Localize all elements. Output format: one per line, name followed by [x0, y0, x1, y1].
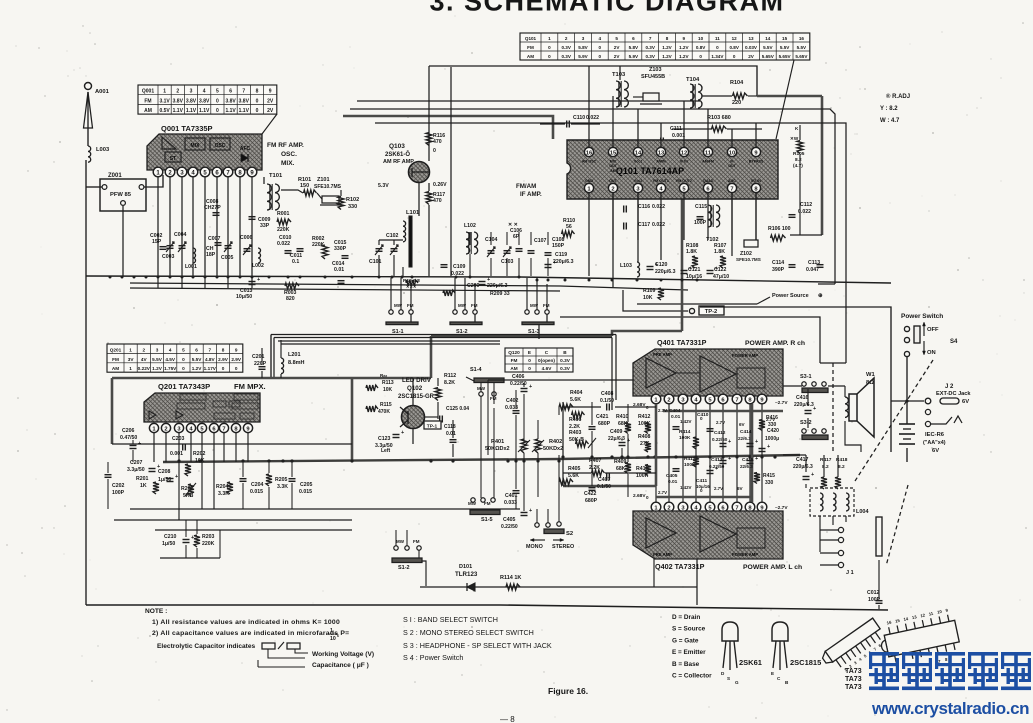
table Q201 voltages — [107, 344, 243, 372]
wires speaker loop — [845, 421, 861, 452]
svg-text:+: + — [728, 439, 731, 445]
svg-text:ON: ON — [927, 350, 936, 356]
svg-text:1.2V: 1.2V — [679, 45, 689, 50]
svg-text:220K: 220K — [202, 541, 215, 547]
svg-text:www.crystalradio.cn: www.crystalradio.cn — [871, 699, 1029, 718]
svg-text:1.8K: 1.8K — [686, 249, 697, 255]
svg-text:T104: T104 — [686, 77, 700, 83]
svg-text:Q001: Q001 — [142, 89, 154, 95]
resistor R209 33 — [443, 290, 455, 296]
svg-text:1.2V: 1.2V — [192, 366, 203, 371]
svg-text:C210: C210 — [164, 534, 177, 540]
svg-text:1.2V: 1.2V — [152, 366, 163, 371]
svg-text:R405: R405 — [568, 466, 581, 472]
headphone jack J1 — [838, 527, 843, 532]
svg-text:220μ/6.3: 220μ/6.3 — [794, 402, 814, 408]
svg-text:T103: T103 — [612, 72, 626, 78]
svg-text:2: 2 — [667, 398, 670, 404]
svg-text:S 3 : HEADPHONE - SP SELECT: S 3 : HEADPHONE - SP SELECT WITH JACK — [403, 641, 552, 650]
svg-text:R414: R414 — [679, 429, 691, 435]
svg-text:D101: D101 — [459, 564, 472, 570]
wire third mid bus — [130, 288, 560, 291]
svg-text:J 1: J 1 — [846, 570, 854, 576]
wire AF section border outer — [271, 334, 616, 336]
svg-text:R001: R001 — [277, 211, 290, 217]
svg-text:470: 470 — [433, 139, 442, 145]
wire table pointer Q001 — [262, 114, 277, 134]
svg-text:Q120: Q120 — [508, 350, 520, 355]
wires amp pin columns — [655, 404, 657, 502]
svg-text:0.022: 0.022 — [451, 271, 464, 277]
wire C210 bottom — [160, 557, 220, 559]
svg-text:8.2K: 8.2K — [444, 380, 455, 386]
svg-text:R102: R102 — [346, 197, 359, 203]
svg-text:Q101: Q101 — [525, 36, 537, 41]
paper speckle noise — [335, 110, 337, 112]
svg-text:✕ ✕: ✕ ✕ — [508, 222, 518, 228]
svg-text:Z101: Z101 — [317, 177, 330, 183]
svg-text:220K: 220K — [277, 227, 290, 233]
svg-text:10: 10 — [698, 36, 704, 41]
svg-text:+: + — [529, 384, 532, 390]
resistor R119 6.8 — [406, 280, 418, 286]
wire power source pointer — [757, 297, 770, 304]
svg-text:OSC: OSC — [215, 143, 226, 149]
svg-text:0: 0 — [256, 108, 259, 114]
svg-text:0.3V: 0.3V — [645, 54, 655, 59]
svg-text:0: 0 — [235, 366, 238, 371]
svg-text:7: 7 — [735, 398, 738, 404]
svg-text:0.015: 0.015 — [250, 489, 263, 495]
svg-text:4V: 4V — [141, 357, 148, 362]
svg-text:FM: FM — [511, 358, 518, 363]
svg-text:0.01: 0.01 — [668, 479, 678, 485]
svg-text:AM: AM — [112, 366, 119, 371]
svg-text:2SK61-Ō: 2SK61-Ō — [385, 151, 410, 158]
svg-text:IF AMP.: IF AMP. — [520, 191, 542, 198]
svg-text:R202: R202 — [193, 451, 206, 457]
svg-text:MIX: MIX — [610, 160, 617, 164]
svg-text:5.3V: 5.3V — [378, 183, 389, 189]
svg-text:C = Collector: C = Collector — [672, 673, 712, 680]
svg-text:C003: C003 — [162, 254, 175, 260]
svg-text:7: 7 — [649, 36, 652, 41]
svg-text:0.22/50: 0.22/50 — [712, 437, 728, 442]
svg-text:5.5V: 5.5V — [192, 357, 203, 362]
svg-text:14: 14 — [765, 36, 771, 41]
wire y530 segment — [155, 529, 352, 531]
svg-text:3.8V: 3.8V — [173, 98, 184, 104]
svg-text:1.42V: 1.42V — [680, 485, 692, 490]
svg-text:QUAD: QUAD — [703, 179, 714, 183]
svg-text:L002: L002 — [252, 263, 264, 269]
svg-text:TA73: TA73 — [845, 668, 862, 675]
wire main AF bus — [163, 455, 800, 462]
wire main mid bus — [86, 276, 891, 283]
svg-text:0.5V: 0.5V — [159, 108, 170, 114]
svg-text:T101: T101 — [269, 173, 283, 179]
svg-text:C416: C416 — [796, 395, 809, 401]
svg-text:C404: C404 — [669, 408, 681, 414]
svg-text:+: + — [767, 444, 770, 450]
svg-text:5.6K: 5.6K — [570, 397, 581, 403]
wire Z101 row — [281, 190, 303, 193]
svg-text:+: + — [755, 439, 758, 445]
elco C120 220u/6.3 — [647, 266, 654, 268]
svg-text:C110: C110 — [573, 115, 585, 121]
svg-text:0.22V: 0.22V — [138, 366, 151, 371]
svg-text:220μ/6.3: 220μ/6.3 — [655, 269, 676, 275]
svg-text:33P: 33P — [260, 223, 270, 229]
svg-text:S1-4: S1-4 — [470, 367, 483, 373]
svg-text:0: 0 — [182, 366, 185, 371]
svg-text:S1-3: S1-3 — [528, 329, 540, 335]
svg-text:C004: C004 — [174, 232, 187, 238]
svg-text:1: 1 — [330, 628, 333, 634]
wire table pointer Q101 — [776, 60, 794, 139]
svg-text:330: 330 — [765, 480, 774, 486]
svg-text:16: 16 — [799, 36, 805, 41]
svg-text:FM/AM: FM/AM — [516, 183, 536, 190]
svg-text:470K: 470K — [378, 409, 390, 415]
wire S1-4 pointer — [466, 377, 474, 381]
svg-text:+: + — [401, 430, 404, 436]
svg-text:0.3V: 0.3V — [560, 358, 571, 363]
svg-text:AM: AM — [144, 108, 152, 114]
svg-text:5.9V: 5.9V — [629, 54, 639, 59]
svg-text:SFU455B: SFU455B — [641, 74, 665, 80]
svg-text:1.75V: 1.75V — [164, 366, 177, 371]
svg-text:R205: R205 — [275, 477, 288, 483]
wire thick L to band switch — [612, 331, 682, 336]
svg-text:0.3V: 0.3V — [561, 45, 571, 50]
svg-text:C119: C119 — [555, 252, 567, 258]
svg-text:5.5V: 5.5V — [780, 45, 790, 50]
svg-text:+: + — [811, 472, 814, 478]
wire thick IF input bus — [343, 116, 553, 139]
svg-text:PFW 85: PFW 85 — [110, 192, 132, 198]
wires under Q101 — [612, 193, 614, 287]
svg-text:2V: 2V — [267, 98, 274, 104]
wire Z001 right — [144, 175, 163, 187]
capacitor C116 0.022 — [623, 206, 625, 213]
svg-text:C007: C007 — [208, 236, 221, 242]
svg-text:1.1V: 1.1V — [225, 108, 236, 114]
svg-text:2.7V: 2.7V — [714, 486, 723, 491]
svg-text:2: 2 — [565, 36, 568, 41]
svg-text:C201: C201 — [252, 354, 265, 360]
svg-text:Q201: Q201 — [110, 347, 122, 352]
svg-text:2V: 2V — [267, 108, 274, 114]
svg-text:C112: C112 — [800, 202, 812, 208]
svg-text:0.8V: 0.8V — [696, 45, 706, 50]
wires left amp horizontals — [488, 379, 633, 381]
svg-text:15: 15 — [610, 151, 617, 157]
thick amp rails — [655, 404, 658, 486]
svg-text:0: 0 — [646, 495, 649, 500]
svg-text:AGC: AGC — [728, 179, 736, 183]
svg-text:C109: C109 — [453, 264, 466, 270]
svg-text:5: 5 — [615, 36, 618, 41]
svg-text:0: 0 — [528, 366, 531, 371]
wire TP-2 line — [623, 290, 688, 311]
svg-text:+: + — [257, 277, 260, 283]
svg-text:Q102: Q102 — [407, 385, 423, 392]
svg-text:C405: C405 — [503, 517, 516, 523]
svg-text:2: 2 — [142, 347, 145, 352]
svg-text:1: 1 — [163, 89, 166, 95]
svg-text:3.8V: 3.8V — [239, 98, 250, 104]
svg-text:4: 4 — [169, 347, 172, 352]
svg-text:7: 7 — [222, 427, 225, 433]
svg-text:1000μ: 1000μ — [765, 436, 779, 442]
svg-text:C207: C207 — [130, 460, 143, 466]
svg-text:10: 10 — [330, 636, 336, 642]
svg-text:S = Source: S = Source — [672, 626, 706, 633]
svg-text:11: 11 — [705, 151, 712, 157]
svg-text:GND: GND — [585, 179, 593, 183]
dashed chassis diagonals — [855, 360, 933, 481]
svg-text:MIX: MIX — [191, 143, 201, 149]
wire S1-2 to diode line — [422, 561, 426, 586]
svg-text:13: 13 — [748, 36, 754, 41]
svg-text:6V: 6V — [962, 399, 969, 405]
svg-text:C209: C209 — [467, 283, 480, 289]
svg-text:10μ/16: 10μ/16 — [696, 484, 710, 489]
svg-text:Y : 8.2: Y : 8.2 — [880, 106, 898, 112]
svg-text:680P: 680P — [598, 421, 611, 427]
svg-text:1.42V: 1.42V — [680, 419, 692, 424]
elco C121 10u/16 — [681, 270, 688, 272]
svg-text:6V: 6V — [739, 422, 746, 427]
svg-text:E: E — [771, 671, 774, 676]
wires Q001 pins down — [157, 177, 159, 276]
svg-text:10: 10 — [729, 151, 735, 157]
svg-text:R106 100: R106 100 — [768, 226, 791, 232]
svg-text:0: 0 — [733, 54, 736, 59]
svg-text:8: 8 — [256, 89, 259, 95]
svg-text:+: + — [755, 456, 758, 462]
svg-text:C116: C116 — [638, 204, 650, 210]
svg-text:9: 9 — [683, 36, 686, 41]
svg-text:0.015: 0.015 — [299, 489, 312, 495]
svg-text:5.65V: 5.65V — [779, 54, 792, 59]
svg-text:2: 2 — [176, 89, 179, 95]
svg-text:1: 1 — [129, 366, 132, 371]
svg-text:R412: R412 — [638, 414, 651, 420]
watermark crystalradio.cn — [869, 652, 899, 656]
svg-text:PRE AMP: PRE AMP — [653, 552, 672, 557]
wire stub R106 row — [790, 234, 822, 236]
svg-text:220: 220 — [732, 100, 741, 106]
svg-text:ST: ST — [170, 156, 176, 162]
svg-text:L201: L201 — [288, 352, 301, 358]
svg-text:C114: C114 — [772, 260, 784, 266]
svg-text:TP-1: TP-1 — [427, 424, 438, 430]
svg-text:150P: 150P — [552, 243, 565, 249]
svg-text:0.3V: 0.3V — [561, 54, 571, 59]
wire AF section border inner — [278, 340, 500, 342]
wire long bus y317 — [560, 317, 820, 363]
svg-text:22/6.3: 22/6.3 — [738, 436, 751, 441]
svg-text:FM: FM — [407, 303, 414, 308]
svg-text:8: 8 — [666, 36, 669, 41]
IC Q001 TA7335P block — [147, 134, 262, 170]
svg-text:MIX.: MIX. — [281, 160, 295, 167]
svg-text:Q201 TA7343P: Q201 TA7343P — [158, 382, 210, 391]
resistor R116 470 — [426, 133, 432, 146]
svg-text:1.1V: 1.1V — [199, 108, 210, 114]
svg-text:0.022: 0.022 — [652, 204, 665, 210]
svg-text:2.7V: 2.7V — [658, 490, 667, 495]
svg-text:S: S — [727, 676, 730, 681]
svg-text:R406: R406 — [569, 417, 582, 423]
svg-text:C408: C408 — [601, 391, 614, 397]
svg-text:2.7V: 2.7V — [716, 420, 725, 425]
svg-text:1K: 1K — [140, 483, 147, 489]
svg-text:0.26V: 0.26V — [433, 182, 447, 188]
IC Q402 pins 1-9 — [651, 502, 661, 512]
svg-text:+: + — [191, 535, 194, 541]
svg-text:L001: L001 — [185, 264, 197, 270]
IC Q101 pins top row 16-9 — [584, 147, 593, 156]
svg-text:1.2V: 1.2V — [662, 54, 672, 59]
svg-text:R209 33: R209 33 — [490, 291, 510, 297]
svg-text:R113: R113 — [382, 380, 394, 386]
svg-text:C202: C202 — [112, 483, 125, 489]
resistor R117 470 — [426, 192, 432, 205]
svg-text:7: 7 — [208, 347, 211, 352]
svg-text:EXT-DC Jack: EXT-DC Jack — [936, 391, 971, 397]
svg-text:Electrolytic Capacitor indic: Electrolytic Capacitor indicates — [157, 643, 256, 650]
table Q120 voltages — [505, 348, 573, 372]
svg-text:IF IN: IF IN — [680, 160, 688, 164]
svg-text:IEC-R6: IEC-R6 — [925, 432, 945, 438]
test point TP-2 — [689, 308, 694, 313]
svg-text:L103: L103 — [620, 263, 632, 269]
svg-text:0.1/50: 0.1/50 — [600, 398, 614, 404]
svg-text:5: 5 — [182, 347, 185, 352]
svg-text:C405: C405 — [666, 473, 678, 479]
svg-text:OUT: OUT — [609, 164, 617, 168]
wire x697 to border — [696, 509, 698, 605]
svg-text:6V: 6V — [932, 448, 939, 454]
wire thick feed top right — [757, 95, 822, 98]
svg-text:+: + — [728, 456, 731, 462]
svg-text:L004: L004 — [856, 509, 869, 515]
svg-text:Power Switch: Power Switch — [901, 313, 943, 320]
svg-text:22μ/6.3: 22μ/6.3 — [608, 436, 625, 442]
svg-text:S1-5: S1-5 — [481, 517, 493, 523]
svg-text:2V: 2V — [614, 45, 621, 50]
svg-text:CH27P: CH27P — [204, 205, 221, 211]
svg-text:S3-2: S3-2 — [800, 420, 812, 426]
wires IF tank verticals — [469, 232, 471, 245]
svg-text:R104: R104 — [730, 80, 744, 86]
svg-text:0.001: 0.001 — [170, 451, 183, 457]
svg-text:Capacitance ( μF ): Capacitance ( μF ) — [312, 662, 369, 669]
svg-text:+: + — [553, 260, 556, 266]
svg-text:MONO: MONO — [526, 544, 543, 550]
svg-text:C422: C422 — [584, 491, 597, 497]
svg-text:BYPASS: BYPASS — [749, 160, 764, 164]
svg-text:R415: R415 — [763, 473, 775, 479]
svg-text:C205: C205 — [300, 482, 313, 488]
IC Q401 block — [633, 349, 783, 396]
svg-text:2V: 2V — [614, 54, 621, 59]
wire power source line — [637, 303, 757, 305]
svg-text:0: 0 — [716, 45, 719, 50]
svg-text:1.2V: 1.2V — [662, 45, 672, 50]
svg-text:10μ/50: 10μ/50 — [236, 294, 252, 300]
svg-text:C005: C005 — [221, 255, 234, 261]
svg-text:R401: R401 — [491, 439, 504, 445]
svg-text:22/6.3: 22/6.3 — [740, 464, 753, 469]
svg-text:C206: C206 — [122, 428, 135, 434]
svg-text:0: 0 — [528, 358, 531, 363]
svg-text:3. SCHEMATIC DIAGRAM: 3. SCHEMATIC DIAGRAM — [429, 0, 784, 17]
svg-text:AM: AM — [527, 54, 534, 59]
svg-text:5.65V: 5.65V — [762, 54, 775, 59]
jack J2 EXT-DC — [891, 400, 924, 402]
IC Q201 TA7343P block — [144, 393, 260, 422]
svg-text:0.1: 0.1 — [292, 259, 299, 265]
svg-text:0.22/50: 0.22/50 — [709, 464, 725, 469]
antenna A001 — [85, 83, 92, 90]
svg-text:1.1V: 1.1V — [186, 108, 197, 114]
svg-text:S1-2: S1-2 — [398, 565, 410, 571]
wire bottom border of schematic — [86, 605, 888, 610]
svg-text:Q101 TA7614AP: Q101 TA7614AP — [616, 166, 684, 176]
svg-text:C102: C102 — [386, 233, 399, 239]
svg-text:Figure 16.: Figure 16. — [548, 686, 588, 696]
wire thick to Q102 top — [431, 335, 612, 338]
svg-text:SFE10.7MS: SFE10.7MS — [314, 184, 342, 190]
svg-text:50KDx2: 50KDx2 — [543, 446, 563, 452]
svg-text:C125 0.04: C125 0.04 — [446, 406, 469, 412]
svg-text:(4.7): (4.7) — [793, 163, 803, 169]
svg-text:390P: 390P — [772, 267, 785, 273]
svg-text:PRE AMP: PRE AMP — [653, 352, 672, 357]
svg-text:C208: C208 — [158, 469, 171, 475]
svg-text:POWER AMP: POWER AMP — [732, 353, 758, 358]
IC Q401 pins 1-9 — [651, 394, 661, 404]
svg-text:6V: 6V — [737, 486, 744, 491]
svg-text:MW: MW — [396, 539, 405, 544]
svg-text:FM: FM — [543, 303, 550, 308]
svg-text:E: E — [528, 350, 531, 355]
svg-text:TA73: TA73 — [845, 676, 862, 683]
svg-text:0: 0 — [548, 45, 551, 50]
svg-text:2) All capacitance values a: 2) All capacitance values are indicated … — [152, 630, 349, 637]
svg-text:TP-2: TP-2 — [705, 309, 718, 315]
test point TP-1 — [424, 421, 441, 429]
svg-text:2SC1815: 2SC1815 — [790, 658, 821, 667]
svg-text:E = Emitter: E = Emitter — [672, 649, 706, 656]
svg-text:FM OUT2: FM OUT2 — [676, 179, 692, 183]
svg-text:1) All resistance values ar: 1) All resistance values are indicated i… — [152, 619, 340, 626]
svg-text:4: 4 — [599, 36, 602, 41]
svg-text:2.7V: 2.7V — [658, 408, 667, 413]
wires Q201 pins down — [153, 433, 155, 462]
wire x451 down — [450, 67, 452, 276]
svg-text:— 8: — 8 — [500, 715, 515, 723]
svg-text:C006: C006 — [240, 235, 253, 241]
svg-text:1.8K: 1.8K — [714, 249, 725, 255]
battery IEC-R6 — [899, 423, 915, 425]
svg-text:5.5V: 5.5V — [763, 45, 773, 50]
svg-text:2.9V: 2.9V — [231, 357, 242, 362]
